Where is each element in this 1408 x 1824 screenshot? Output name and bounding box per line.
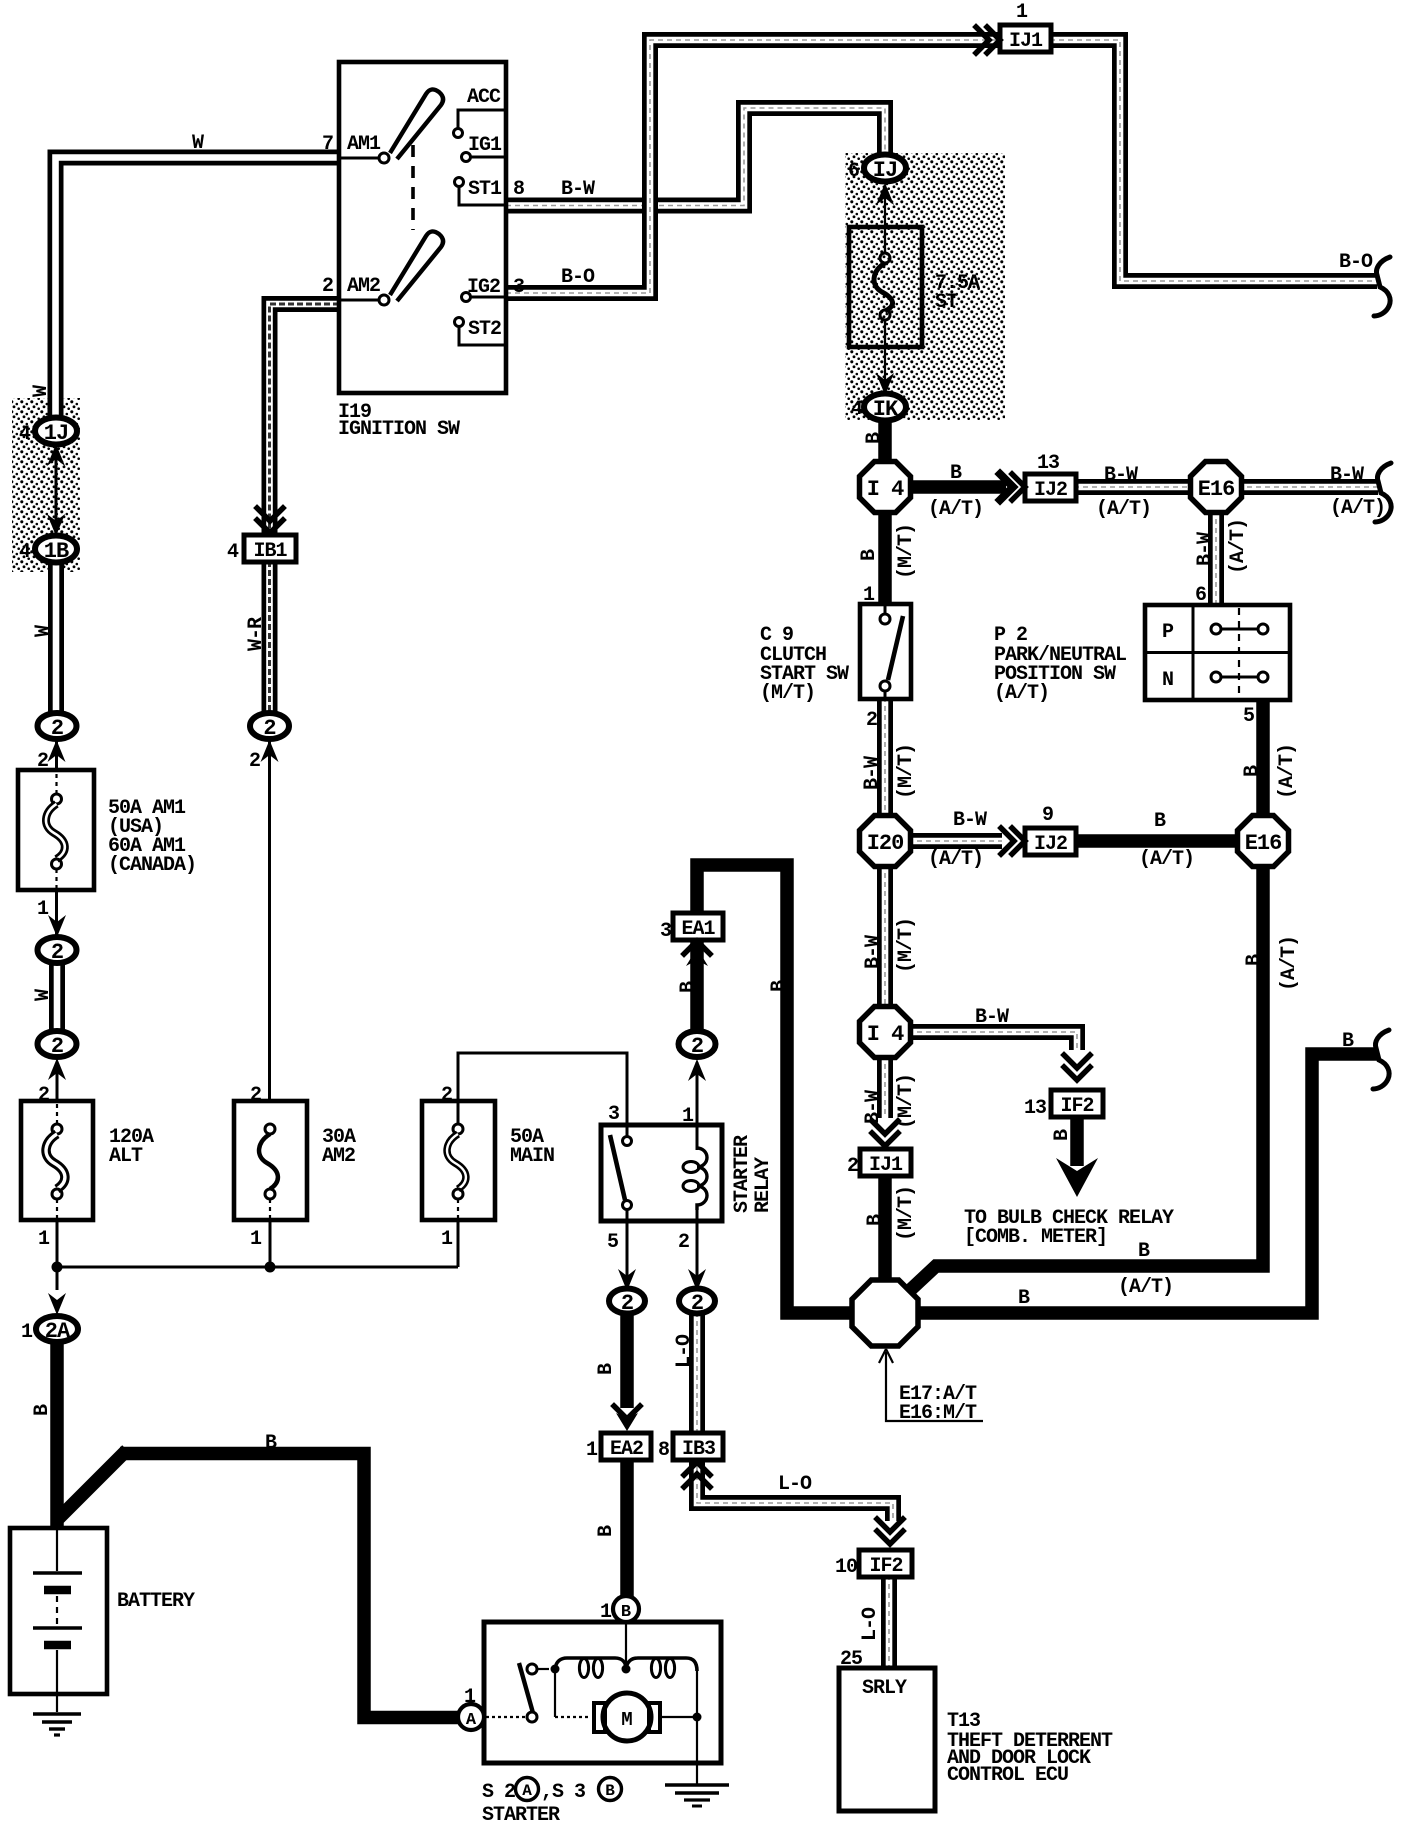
svg-text:1: 1 [1016, 1, 1028, 24]
svg-text:B: B [1241, 765, 1264, 777]
svg-text:3: 3 [513, 276, 524, 299]
svg-text:STARTER: STARTER [731, 1135, 754, 1213]
arrow up into connector IJ [876, 183, 894, 205]
svg-text:IJ2: IJ2 [1034, 833, 1067, 856]
wire B diagonal branch at battery [59, 1450, 127, 1518]
svg-text:3: 3 [608, 1103, 619, 1126]
wire from fuse MAIN pin 2 to starter relay pin 3 [458, 1053, 627, 1136]
svg-text:2: 2 [322, 275, 333, 298]
out-page curl B-O right [1374, 257, 1390, 316]
fuse 50A AM1 element [55, 758, 57, 794]
wire B-W from ignition SW ST1 to junction connector IJ [506, 108, 885, 206]
wire B-W from clutch start SW C9 pin 2 to node I20 [877, 697, 893, 819]
connector box IJ2 pin 9 [1025, 828, 1076, 855]
svg-text:1: 1 [441, 1228, 453, 1251]
wire B from connector 2A down to battery [50, 1340, 64, 1530]
wire B from main node octagon left up and over to connector EA1 [697, 865, 856, 1313]
wire from splice 2 to fuse AM2 30A [268, 729, 271, 1102]
wire B from connector IK through node I4 to clutch start SW C9 pin 1 [878, 418, 892, 606]
ignition SW AM2 contact [379, 295, 389, 305]
wire B from connector EA1 down to splice 2 [690, 937, 704, 1035]
connector oval 1B [35, 536, 77, 563]
chevron arrows into IF2 pin13 [1064, 1055, 1090, 1080]
svg-text:B: B [595, 1525, 618, 1537]
svg-text:B-W: B-W [862, 935, 885, 969]
solid arrowhead into EA1 [686, 948, 708, 966]
arrow up into splice 2 left [48, 740, 66, 762]
svg-text:[COMB. METER]: [COMB. METER] [964, 1226, 1107, 1249]
ignition SW AM2 wiper [390, 231, 443, 301]
arrow down into connector IK [876, 373, 894, 395]
svg-text:1: 1 [250, 1228, 262, 1251]
wire from starter relay pin 2 to splice 2 [696, 1220, 699, 1290]
svg-text:SRLY: SRLY [862, 1677, 907, 1700]
svg-text:E16:M/T: E16:M/T [899, 1402, 977, 1425]
starter field coil right [626, 1658, 697, 1671]
svg-text:M: M [621, 1709, 632, 1731]
svg-text:4: 4 [19, 423, 31, 446]
svg-text:A: A [466, 1711, 477, 1730]
svg-text:(M/T): (M/T) [895, 918, 918, 973]
svg-text:(M/T): (M/T) [760, 682, 815, 705]
svg-text:4: 4 [227, 541, 239, 564]
connector box IJ1 top [1000, 25, 1051, 52]
svg-text:(A/T): (A/T) [1330, 497, 1385, 520]
svg-text:8: 8 [658, 1439, 669, 1462]
svg-text:(A/T): (A/T) [994, 682, 1049, 705]
wire fuse AM2 to bus [269, 1219, 272, 1267]
svg-text:1: 1 [37, 898, 49, 921]
svg-text:13: 13 [1037, 452, 1059, 475]
svg-text:(M/T): (M/T) [895, 1186, 918, 1241]
park/neutral position switch P2 box [1145, 605, 1290, 700]
svg-text:2: 2 [38, 1084, 49, 1107]
wire B from connector IF2 pin 13 down to arrow [1070, 1103, 1084, 1166]
svg-text:B: B [1154, 810, 1166, 833]
svg-text:IG2: IG2 [467, 276, 500, 299]
svg-text:AM2: AM2 [347, 275, 380, 298]
wire B-W from node E16 down to P2 pin 6 [1208, 510, 1224, 607]
arrow down into splice 2 from relay pin 5 [618, 1269, 636, 1291]
connector oval IK [864, 394, 906, 421]
wire B-W from node I20 down to node I4 [877, 864, 893, 1011]
splice oval 2 relay pin5 [609, 1289, 645, 1314]
starter relay coil [696, 1125, 699, 1150]
svg-text:B-W: B-W [862, 1090, 885, 1124]
ignition SW AM1 terminal line [339, 157, 379, 160]
svg-text:B: B [595, 1363, 618, 1375]
svg-text:STARTER: STARTER [482, 1804, 560, 1824]
svg-text:B-W: B-W [975, 1006, 1009, 1029]
wire B from connector EA2 to starter pin B [620, 1456, 634, 1598]
wire L-O from connector IB3 to connector IF2 pin 10 [697, 1457, 893, 1521]
svg-text:IJ: IJ [873, 158, 897, 183]
arrow down into connector 2A [48, 1293, 66, 1315]
arrow down into splice 2 [48, 915, 66, 937]
node octagon E16 lower [1238, 816, 1289, 867]
connector box IJ2 pin 13 [1025, 474, 1076, 501]
svg-text:5: 5 [1243, 705, 1254, 728]
out-page curl B-W right [1375, 463, 1391, 522]
svg-text:2: 2 [621, 1291, 633, 1316]
svg-text:8: 8 [513, 178, 524, 201]
P2 contact N [1211, 672, 1221, 682]
svg-text:2A: 2A [45, 1319, 71, 1344]
svg-text:L-O: L-O [859, 1607, 882, 1641]
wire B A/T from node E16 down and left to main node octagon [906, 864, 1263, 1294]
svg-text:2: 2 [51, 940, 63, 965]
svg-text:MAIN: MAIN [510, 1145, 554, 1168]
fuse 7.5A ST box [849, 227, 922, 347]
wire B-W from node E16 to out-page right [1238, 479, 1378, 495]
starter S2/S3 box [484, 1622, 721, 1763]
chevron arrows into IJ1 pin2 [872, 1121, 898, 1146]
connector box IB3 [673, 1433, 723, 1460]
ignition SW ST1 terminal [455, 178, 464, 187]
svg-text:B: B [1138, 1240, 1150, 1263]
svg-text:1: 1 [863, 584, 875, 607]
wire W-R from connector IB1 to splice 2 [262, 561, 278, 716]
wire W between splice 2 and fuse AM1 column splice [49, 960, 65, 1036]
svg-text:AM2: AM2 [322, 1145, 355, 1168]
svg-text:2: 2 [250, 1084, 261, 1107]
svg-text:B: B [1018, 1287, 1030, 1310]
wire B from battery branch to starter pin A [120, 1454, 458, 1718]
svg-text:B: B [768, 980, 791, 992]
svg-text:9: 9 [1042, 804, 1053, 827]
chevron arrows into IB3 [684, 1462, 710, 1487]
svg-text:IJ1: IJ1 [1009, 30, 1043, 53]
fuse 30A AM2 element [265, 1124, 275, 1134]
wire L-O from connector IF2 to SRLY pin 25 [881, 1575, 897, 1670]
wire fuse ALT to bus junction [56, 1219, 59, 1290]
wire from connector 1J to connector 1B [55, 447, 58, 533]
svg-text:EA1: EA1 [681, 918, 715, 941]
svg-text:2: 2 [51, 716, 63, 741]
connector oval 1J [35, 418, 77, 445]
battery plates [56, 1530, 58, 1571]
svg-text:W: W [32, 989, 55, 1001]
svg-text:ST2: ST2 [468, 318, 501, 341]
svg-text:B: B [864, 1214, 887, 1226]
svg-text:S 2: S 2 [482, 1781, 515, 1804]
arrow up into splice 2 above fuse ALT [48, 1058, 66, 1080]
arrow up into splice 2 above relay [688, 1059, 706, 1081]
starter ground [696, 1763, 698, 1784]
starter field coil left [555, 1658, 626, 1669]
node octagon I4 second [860, 1007, 911, 1058]
starter coil drop wires [554, 1671, 556, 1717]
ignition SW AM1 wiper [390, 89, 443, 159]
svg-text:E16: E16 [1245, 831, 1282, 856]
svg-text:B-W: B-W [953, 809, 987, 832]
theft deterrent ECU T13 box [839, 1668, 935, 1811]
svg-text:B-O: B-O [561, 266, 595, 289]
wire B-W from node I4 down to connector IJ1 pin 2 [877, 1055, 893, 1118]
svg-text:E16: E16 [1198, 477, 1235, 502]
svg-text:,S 3: ,S 3 [541, 1781, 585, 1804]
battery ground [33, 1712, 81, 1716]
connector box EA1 [673, 913, 723, 940]
svg-text:ST: ST [935, 291, 958, 314]
svg-text:I 4: I 4 [867, 477, 904, 502]
svg-text:1: 1 [586, 1439, 598, 1462]
svg-text:W: W [30, 385, 53, 397]
wire B-W from node I4 to connector IF2 pin 13 [908, 1032, 1077, 1050]
wire B from node I4 to connector IJ2 pin 13 [908, 480, 1006, 494]
svg-text:3: 3 [660, 920, 671, 943]
svg-text:1: 1 [38, 1228, 50, 1251]
chevron arrows into IJ2 pin13 [1000, 474, 1013, 500]
wire fuse MAIN to bus [457, 1219, 460, 1267]
arrow up into splice 2 right [261, 740, 279, 762]
wire B-O from connector IJ1 to out-page right [1050, 40, 1377, 281]
chevron arrows into IJ1 top [976, 27, 1000, 53]
connector box IB1 [244, 535, 296, 562]
arrow to bulb check relay [1056, 1158, 1098, 1197]
svg-text:B: B [1243, 954, 1266, 966]
ignition SW AM1 contact [379, 153, 389, 163]
P2 divider [1192, 605, 1195, 700]
svg-text:(M/T): (M/T) [895, 744, 918, 799]
node octagon I4 [860, 462, 911, 513]
svg-text:10: 10 [835, 1556, 857, 1579]
connector oval 2A [36, 1316, 78, 1342]
P2 mechanical link dashed [1238, 608, 1240, 697]
svg-text:IB1: IB1 [253, 540, 287, 563]
svg-text:(A/T): (A/T) [928, 498, 983, 521]
fuse 7.5A ST element [884, 232, 886, 253]
ignition SW IG1 terminal [462, 153, 471, 162]
svg-text:ALT: ALT [109, 1145, 143, 1168]
splice oval 2 above relay [679, 1031, 716, 1057]
svg-text:(A/T): (A/T) [1278, 936, 1301, 991]
svg-text:(CANADA): (CANADA) [108, 854, 196, 877]
svg-text:2: 2 [847, 1155, 858, 1178]
svg-text:2: 2 [249, 750, 260, 773]
ignition SW ST2 terminal [455, 318, 464, 327]
splice oval 2 left [38, 713, 77, 739]
svg-text:(A/T): (A/T) [1227, 519, 1250, 574]
wire from splice 2 to fuse AM1 [55, 729, 58, 772]
svg-text:2: 2 [441, 1084, 452, 1107]
svg-text:N: N [1162, 669, 1173, 692]
wire from starter relay pin 5 to splice 2 [626, 1220, 629, 1290]
svg-text:6: 6 [848, 160, 859, 183]
battery box [10, 1528, 107, 1694]
svg-text:B: B [863, 432, 886, 444]
svg-text:AM1: AM1 [347, 133, 381, 156]
svg-text:IB3: IB3 [682, 1438, 715, 1461]
starter terminal A circle [458, 1704, 484, 1730]
wire B from P2 pin 5 to node E16 lower [1256, 700, 1270, 820]
svg-text:1J: 1J [44, 421, 68, 446]
main node octagon E17/E16 [852, 1280, 918, 1346]
svg-text:ST1: ST1 [468, 178, 502, 201]
ignition switch I19 box [339, 62, 506, 393]
bus wire joining fuses 1 [57, 1266, 458, 1269]
svg-text:B-W: B-W [1194, 532, 1217, 566]
wire from fuse ST to connector IJ [884, 186, 886, 254]
starter junction dots [551, 1665, 560, 1674]
wire B-W from connector IJ2 to node E16 top row [1074, 479, 1195, 495]
wire B-W from node I20 to connector IJ2 [908, 833, 1002, 849]
pointer arrow to main node octagon [886, 1352, 983, 1421]
splice oval 2 right [250, 713, 289, 739]
P2 contact P [1211, 624, 1221, 634]
svg-text:B: B [1051, 1129, 1074, 1141]
fuse 50A AM1 box [18, 770, 94, 890]
svg-text:7: 7 [322, 133, 333, 156]
svg-text:6: 6 [1195, 584, 1206, 607]
junction dot A [52, 1262, 63, 1273]
clutch start switch C9 box [860, 604, 911, 699]
svg-text:RELAY: RELAY [752, 1157, 775, 1213]
svg-text:EA2: EA2 [610, 1438, 643, 1461]
chevron arrow into EA2 [614, 1406, 640, 1419]
starter internal feed line [625, 1624, 627, 1666]
svg-text:(M/T): (M/T) [895, 524, 918, 579]
svg-text:(A/T): (A/T) [1118, 1276, 1173, 1299]
svg-text:B-W: B-W [1330, 464, 1364, 487]
node octagon E16 top [1191, 462, 1242, 513]
svg-text:13: 13 [1024, 1097, 1046, 1120]
svg-text:4: 4 [19, 541, 31, 564]
wire W from ignition SW AM1 to connector 1J [56, 158, 340, 421]
ignition SW wiper link dashed [411, 145, 415, 230]
svg-text:B: B [858, 549, 881, 561]
connector box EA2 [601, 1433, 651, 1460]
svg-text:IJ2: IJ2 [1034, 479, 1067, 502]
wire B from connector IJ2 pin 9 to node E16 lower row [1074, 834, 1242, 848]
fuse 30A AM2 box [234, 1101, 307, 1220]
svg-text:P: P [1162, 621, 1174, 644]
node octagon I20 [860, 816, 911, 867]
svg-text:I20: I20 [867, 831, 904, 856]
svg-text:(A/T): (A/T) [1096, 498, 1151, 521]
wire from splice 2 into fuse ALT [56, 1062, 59, 1102]
wire from starter relay pin 1 to splice 2 [696, 1062, 699, 1126]
connector box IF2 pin 10 [859, 1550, 912, 1577]
svg-text:L-O: L-O [778, 1473, 812, 1496]
svg-text:CONTROL ECU: CONTROL ECU [947, 1764, 1068, 1787]
starter switch [527, 1664, 537, 1674]
wire L-O from starter relay pin 2 to connector IB3 [689, 1312, 705, 1435]
wire W from connector 1B to splice 2 [48, 560, 64, 716]
arrow down into splice 2 from relay pin 2 [688, 1269, 706, 1291]
svg-text:IGNITION SW: IGNITION SW [338, 418, 460, 441]
svg-text:B: B [1342, 1030, 1354, 1053]
svg-text:IG1: IG1 [468, 134, 502, 157]
svg-text:1B: 1B [44, 539, 69, 564]
svg-text:IJ1: IJ1 [869, 1154, 903, 1177]
svg-text:W: W [32, 625, 55, 637]
svg-text:ACC: ACC [467, 86, 501, 109]
svg-text:B: B [950, 462, 962, 485]
chevron arrows into IB1 [257, 508, 283, 533]
svg-text:(A/T): (A/T) [1276, 744, 1299, 799]
shading around connectors 1J/1B [12, 398, 80, 572]
svg-text:A: A [522, 1782, 532, 1800]
svg-text:B-O: B-O [1339, 251, 1373, 274]
out-page curl B right lower [1373, 1030, 1389, 1089]
svg-text:4: 4 [851, 398, 863, 421]
svg-text:W: W [192, 132, 204, 155]
fuse 50A MAIN element [453, 1124, 463, 1134]
ignition SW AM2 terminal line [339, 299, 379, 302]
chevron arrows into IJ2 pin9 [1001, 828, 1025, 854]
svg-text:IF2: IF2 [869, 1555, 902, 1578]
splice oval 2 mid1 [38, 937, 77, 963]
starter relay switch [626, 1127, 629, 1136]
svg-text:2: 2 [51, 1034, 63, 1059]
svg-text:BATTERY: BATTERY [117, 1590, 195, 1613]
fuse 50A MAIN box [422, 1101, 495, 1220]
svg-text:IF2: IF2 [1060, 1095, 1093, 1118]
svg-text:2: 2 [866, 709, 877, 732]
svg-text:(A/T): (A/T) [1139, 848, 1194, 871]
svg-text:W-R: W-R [245, 617, 268, 651]
svg-text:B: B [31, 1404, 54, 1416]
svg-text:L-O: L-O [673, 1334, 696, 1368]
connector oval IJ [864, 155, 906, 182]
wire B from main node octagon right and up to out-page [916, 1054, 1378, 1313]
svg-text:B: B [605, 1782, 615, 1800]
svg-text:2: 2 [37, 750, 48, 773]
svg-text:1: 1 [21, 1321, 33, 1344]
fuse 120A ALT box [21, 1101, 93, 1220]
svg-text:1: 1 [682, 1105, 694, 1128]
svg-text:B-W: B-W [1104, 464, 1138, 487]
svg-text:5: 5 [607, 1231, 618, 1254]
svg-text:B: B [621, 1603, 631, 1622]
wire from fuse ST to connector IK [884, 320, 886, 392]
wire B from starter relay pin 5 splice to connector EA2 [620, 1312, 634, 1408]
wire W-R from ignition SW AM2 to connector IB1 [270, 304, 340, 533]
svg-text:2: 2 [678, 1231, 689, 1254]
svg-text:25: 25 [840, 1648, 862, 1671]
arrow up into 1J [47, 444, 65, 466]
svg-text:I 4: I 4 [867, 1022, 904, 1047]
svg-text:(M/T): (M/T) [895, 1074, 918, 1129]
svg-text:(A/T): (A/T) [928, 848, 983, 871]
wire from fuse AM1 to splice 2 [55, 890, 58, 938]
svg-text:IK: IK [873, 397, 899, 422]
svg-text:B: B [265, 1432, 277, 1455]
connector box IF2 pin 13 [1051, 1090, 1103, 1117]
splice oval 2 mid2 [38, 1031, 77, 1057]
fuse 120A ALT element [56, 1104, 58, 1124]
svg-text:B-W: B-W [561, 178, 595, 201]
svg-text:2: 2 [691, 1291, 703, 1316]
svg-text:B: B [677, 981, 700, 993]
chevron arrow into EA1 [684, 941, 710, 954]
shading around 7.5A ST fuse [845, 153, 1005, 420]
starter terminal B circle [613, 1596, 639, 1622]
svg-text:2: 2 [691, 1034, 703, 1059]
splice oval 2 relay pin2 [679, 1289, 715, 1314]
chevron arrows into IF2 pin10 [877, 1519, 903, 1544]
svg-text:B-W: B-W [861, 756, 884, 790]
arrow down into 1B [47, 514, 65, 536]
ignition SW IG2 terminal [462, 293, 471, 302]
svg-text:2: 2 [263, 716, 275, 741]
wire B M/T from connector IJ1 down to main node octagon [878, 1173, 892, 1284]
wire B-O from ignition SW IG2 to connector IJ1 [506, 40, 1002, 293]
svg-text:1: 1 [600, 1601, 612, 1624]
starter motor M [603, 1693, 651, 1741]
ignition SW ACC terminal [454, 129, 463, 138]
